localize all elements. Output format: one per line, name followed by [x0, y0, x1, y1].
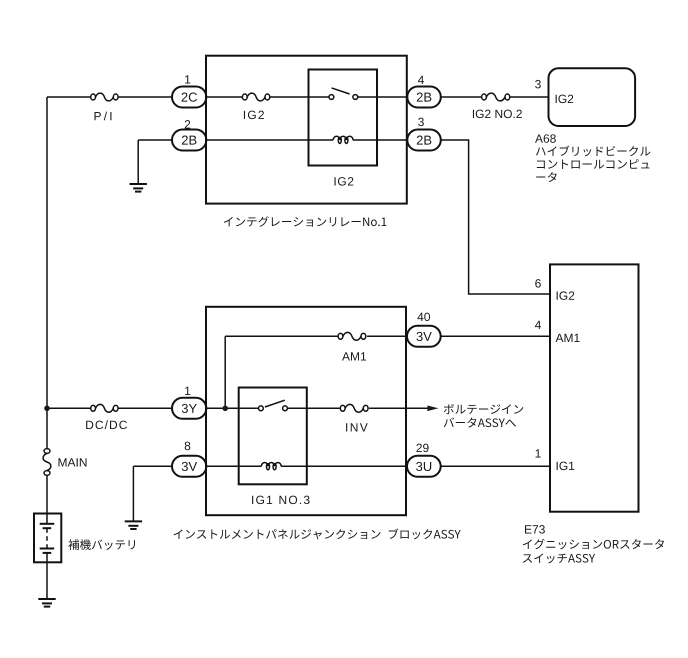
label: pin 3 (2B): [418, 118, 424, 126]
battery B1: auxiliary battery box: [34, 514, 61, 563]
wire: MAIN fuse to battery: [46, 476, 48, 524]
A68 hybrid vehicle control computer box: [549, 68, 636, 126]
label: e73-jp2: [523, 553, 595, 563]
label: relay coil label IG2: [335, 177, 354, 185]
label: arrow-jp1: [444, 404, 524, 414]
ground: battery negative: [38, 599, 55, 607]
label: arrow-jp2: [444, 417, 516, 427]
wire: connector 3U pin29 to E73 IG1 pin1: [441, 465, 550, 467]
label: fuse label IG2 NO.2: [473, 110, 522, 118]
wire: connector 2B pin4 to fuse IG2 NO.2: [441, 96, 482, 98]
label: a68-jp1: [536, 146, 651, 157]
label: pin 2 (2B): [185, 120, 190, 128]
junction block: instrument panel junction block ASSY: [206, 307, 406, 515]
wire: battery negative to ground: [46, 553, 48, 599]
label: pin 4 (E73): [535, 321, 541, 329]
label: pin 1 (3Y): [185, 387, 190, 395]
label: fuse label DC/DC: [86, 420, 127, 429]
wire: fuse IG2 NO.2 to A68 pin3: [510, 96, 549, 98]
wire: fuse DC/DC to connector 3Y: [118, 407, 172, 409]
label: fuse label MAIN: [58, 458, 86, 466]
label: pin 29 (3U): [416, 444, 428, 452]
arrow: to voltage inverter ASSY: [427, 406, 438, 412]
wire: fuse INV to voltage inverter arrow: [369, 407, 428, 409]
label: pin 3 (A68): [535, 80, 541, 88]
wire: IG1 NO.3 switch to fuse INV: [287, 407, 340, 409]
wire: battery feed vertical from top-left corner down to MAIN fuse: [46, 97, 48, 448]
label: battery-label: [68, 539, 135, 550]
label: pin 40 (3V): [417, 313, 430, 321]
label: fuse label IG2: [244, 111, 264, 119]
wire: ground lead of connector 2B pin2: [138, 139, 172, 141]
fuse P/I: [91, 93, 118, 101]
label: connector label 2C: [182, 93, 197, 102]
wire: fuse AM1 to connector 3V pin40: [367, 335, 407, 337]
connector 3V pin40: [407, 326, 441, 347]
label: connector label 2B: [417, 136, 432, 145]
label: pin 1 (2C): [185, 75, 190, 83]
wire: connector 2B pin3 to E73 IG2 pin6 (right riser): [441, 140, 550, 294]
E73 ignition or starter switch box: [550, 264, 639, 511]
label: connector label 2B: [417, 93, 432, 102]
label: a68-jp3: [536, 172, 557, 182]
label: relay-label: [224, 216, 387, 227]
relay U1 switch contacts: [329, 88, 358, 100]
label: connector label 3V: [416, 332, 431, 341]
label: connector label 3V: [182, 462, 197, 471]
battery B1 plates: [40, 524, 55, 553]
connector 2B pin2: [172, 130, 206, 151]
label: terminal AM1 (E73): [556, 334, 580, 342]
label: fuse label INV: [346, 423, 368, 431]
label: pin 1 (E73): [536, 449, 541, 457]
label: terminal IG2 (E73): [557, 291, 575, 299]
wire: fuse IG2 to relay switch contact: [270, 96, 329, 98]
wire: ground lead of connector 3V pin8: [133, 465, 172, 467]
fuse INV: [340, 404, 368, 412]
wire: AM1 branch to fuse AM1: [225, 335, 338, 337]
connector 2C pin1: [172, 87, 206, 108]
relay box: integration relay No.1: [206, 56, 407, 204]
label: a68-jp2: [537, 159, 649, 169]
ground: 3V pin8: [125, 521, 142, 529]
connector 3Y pin1: [172, 398, 206, 419]
label: junction-label: [174, 529, 461, 540]
wire: connector 2C to fuse IG2: [206, 96, 242, 98]
label: ref A68: [535, 134, 556, 142]
label: connector label 3U: [416, 462, 431, 471]
connector 3V pin8: [172, 456, 206, 477]
wire: junction block riser from AM1 branch down to node: [224, 336, 226, 408]
label: fuse label AM1: [342, 352, 366, 360]
node B: junction dot 3Y / AM1 branch: [222, 406, 228, 412]
relay U2 coil IG1 NO.3: [261, 462, 281, 469]
label: pin 8 (3V): [185, 442, 191, 450]
wire: relay coil to connector 2B pin3: [353, 139, 407, 141]
relay U1 coil IG2: [333, 136, 353, 143]
wire: connector 3Y to node A: [206, 407, 258, 409]
wire: row5 battery feed to fuse DC/DC: [47, 407, 91, 409]
node A: junction dot battery feed / DC/DC: [44, 406, 50, 412]
wire: row1 left segment to fuse P/I: [47, 96, 91, 98]
fuse AM1: [338, 332, 366, 340]
ground: relay coil 2B pin2: [130, 184, 147, 192]
connector 2B pin4: [407, 87, 441, 108]
label: ref E73: [525, 525, 545, 533]
wire: connector 3V pin40 to E73 AM1 pin4: [441, 335, 550, 337]
wire: connector 2B pin2 to relay coil: [206, 139, 333, 141]
label: connector label 2B: [182, 136, 197, 145]
wire: connector 3V pin8 to IG1 NO.3 coil: [206, 465, 261, 467]
wire: fuse P/I to connector 2C: [118, 96, 172, 98]
label: e73-jp1: [523, 539, 664, 550]
relay U1 inner box: [309, 70, 378, 166]
label: relay label IG1 NO.3: [252, 496, 309, 504]
relay U2 switch contacts: [259, 400, 288, 410]
fuse DC/DC: [91, 404, 118, 412]
connector 3U pin29: [407, 456, 441, 477]
label: terminal IG2 (A68): [556, 95, 574, 103]
label: pin 4 (2B): [418, 76, 424, 84]
fuse MAIN: [43, 449, 51, 476]
label: connector label 3Y: [182, 404, 197, 413]
wire: relay switch to connector 2B pin4: [358, 96, 408, 98]
fuse IG2 (in relay): [242, 93, 269, 101]
label: pin 6 (E73): [535, 279, 541, 287]
fuse IG2 NO.2: [482, 93, 510, 101]
label: terminal IG1 (E73): [557, 462, 575, 470]
relay U2 inner box IG1 NO.3: [239, 388, 307, 485]
connector 2B pin3: [407, 130, 441, 151]
wire: IG1 NO.3 coil to connector 3U pin29: [281, 465, 407, 467]
label: fuse label P/I: [94, 112, 111, 121]
